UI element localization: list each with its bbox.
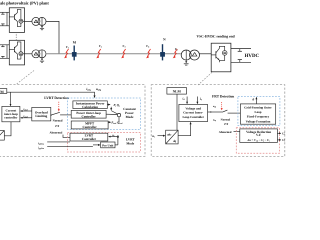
voltage and current inner-loop controller box — [179, 104, 208, 121]
svg-text:VSC-HVDC sending end: VSC-HVDC sending end — [197, 34, 235, 38]
svg-text:utq: utq — [213, 118, 217, 121]
svg-text:Overload: Overload — [35, 111, 48, 115]
svg-text:F5: F5 — [175, 48, 178, 51]
voltage reduction group (red dashed box) — [236, 128, 279, 153]
svg-text:Controller: Controller — [82, 125, 96, 128]
svg-text:Normal: Normal — [53, 119, 63, 123]
wire: PV2 converter to transformer T2 — [25, 53, 32, 55]
instantaneous power calculation box — [73, 101, 107, 109]
node u_t — [112, 134, 118, 138]
label u_sdq — [96, 88, 101, 92]
svg-text:Power: Power — [125, 111, 134, 115]
per unit box — [101, 142, 115, 148]
LVRT mode group (red dashed box) — [67, 133, 140, 153]
LVRT controller box — [70, 133, 108, 141]
output arrow U lower — [277, 139, 281, 141]
continuation dots between PV units — [15, 34, 18, 40]
svg-text:abc: abc — [167, 133, 172, 137]
wire power outer-loop to selector — [106, 113, 117, 115]
VSC-HVDC converter U1 (box with IGBT submodule) — [211, 43, 231, 72]
dq-abc transform box (left panel) — [0, 131, 4, 141]
label Abnormal — [50, 131, 63, 135]
svg-text:FRT Detection: FRT Detection — [212, 95, 234, 99]
svg-text:Controller: Controller — [82, 138, 96, 142]
svg-text:Grid-Forming Outer: Grid-Forming Outer — [244, 106, 272, 110]
svg-text:idref: idref — [23, 108, 27, 111]
svg-text:M: M — [73, 41, 77, 45]
DC line positive — [231, 48, 251, 50]
svg-text:FX: FX — [224, 123, 229, 126]
wire NLM to abc-dq — [176, 94, 178, 130]
arrow i_d into controller — [186, 97, 188, 104]
red dashed arrow from LVRT detection to switch — [58, 102, 60, 111]
label F3 — [123, 45, 126, 48]
svg-text:Large-scale photovoltaic (PV): Large-scale photovoltaic (PV) plant — [0, 0, 49, 5]
svg-text:iqref: iqref — [23, 115, 27, 118]
svg-text:PWM: PWM — [0, 90, 4, 94]
svg-text:dq: dq — [173, 139, 176, 143]
svg-text:Mode: Mode — [126, 142, 134, 146]
wire i_gd,lim — [47, 141, 70, 143]
wire abc-dq to controller — [178, 122, 191, 136]
DC capacitor lower — [238, 60, 242, 63]
PWM box — [0, 89, 7, 94]
svg-text:Voltage Formation: Voltage Formation — [246, 120, 271, 124]
label theta — [252, 98, 254, 102]
label u_td* — [213, 105, 217, 108]
svg-text:Per Unit: Per Unit — [102, 144, 114, 148]
fault marker F4 (red bolt) — [146, 49, 151, 58]
svg-text:Loop Controller: Loop Controller — [182, 115, 204, 119]
label u_tq* — [213, 118, 217, 121]
label F5 — [175, 48, 178, 51]
svg-text:F4: F4 — [146, 45, 149, 48]
svg-text:igd,lim: igd,lim — [38, 142, 44, 145]
callout dashed line to VSC control panel — [198, 72, 212, 85]
bus M (navy busbar) — [72, 46, 76, 61]
svg-text:Ut: Ut — [282, 139, 285, 142]
selector wire lower — [118, 117, 120, 122]
voltage reduction box — [240, 129, 278, 143]
svg-text:V-F: V-F — [256, 134, 261, 138]
arrow i_q into controller — [196, 97, 198, 104]
PV inverter unit 1 (converter box with IGBTs) — [0, 8, 25, 33]
wire controller to switch pole — [208, 111, 222, 112]
switch blade (mode selector) — [51, 112, 60, 115]
wire: measurement bus to power calculation — [7, 92, 95, 97]
wire u_t to LVRT controller — [109, 137, 118, 145]
svg-text:F1: F1 — [66, 46, 69, 49]
svg-text:Loop: Loop — [255, 111, 262, 115]
label N — [163, 38, 166, 42]
constant power mode group (blue dashed box) — [68, 98, 141, 129]
label U output lower — [282, 139, 285, 142]
abc-dq transform box (right panel) — [166, 130, 178, 144]
grid-forming outer loop box — [240, 104, 275, 124]
svg-text:Current: Current — [6, 109, 17, 113]
label HVDC — [245, 53, 259, 59]
label Constant Power Mode — [123, 108, 136, 119]
wire abnormal contact to voltage reduction — [234, 130, 240, 132]
transformer T3 (VSC interface, grounded + delta) — [181, 50, 199, 65]
label Ps Qs — [113, 104, 120, 107]
PV control panel (gray dashed box) — [0, 85, 145, 157]
fault marker F1 (red bolt) — [64, 49, 69, 58]
svg-text:NLM: NLM — [173, 89, 181, 93]
switch blade (right panel) — [222, 110, 227, 112]
power outer-loop controller box — [71, 110, 106, 118]
label M — [73, 41, 77, 45]
svg-text:Constant: Constant — [123, 108, 136, 112]
label i_gq,lim — [38, 147, 44, 150]
label i_sdq — [86, 87, 90, 91]
svg-text:usdq: usdq — [96, 88, 101, 92]
output arrow U upper — [277, 132, 281, 134]
svg-text:Ut: Ut — [282, 133, 285, 136]
svg-text:FX: FX — [55, 125, 60, 128]
label Normal (right) — [221, 118, 231, 122]
DC line negative — [231, 61, 251, 63]
bus N (navy busbar) — [160, 44, 164, 60]
wire normal contact to grid-forming loop — [228, 112, 241, 114]
svg-text:LVRT Detection: LVRT Detection — [44, 96, 69, 100]
label F2 — [99, 45, 102, 48]
svg-text:LVRT: LVRT — [126, 138, 135, 142]
arrow MPPT output — [108, 121, 111, 123]
svg-text:Abnormal: Abnormal — [50, 131, 63, 135]
label i_q — [200, 97, 202, 101]
svg-text:inner-loop: inner-loop — [4, 113, 18, 117]
svg-text:igq,lim: igq,lim — [38, 147, 44, 150]
wire switch normal contact to power outer-loop — [60, 114, 71, 116]
arrow power calc output — [107, 104, 110, 106]
wire: T1 to collector trunk — [46, 21, 59, 53]
svg-text:ut: ut — [112, 134, 115, 137]
NLM box — [167, 88, 187, 95]
wire i_qref (overload to current controller) — [21, 117, 32, 119]
svg-text:F3: F3 — [123, 45, 126, 48]
label i_d — [183, 97, 185, 101]
transmission line: bus M segment (PV collector to transformer T3) — [46, 53, 181, 55]
label LVRT Mode — [126, 138, 135, 146]
label VSC-HVDC sending end — [197, 34, 235, 38]
label Normal — [53, 119, 63, 123]
svg-text:Mode: Mode — [126, 115, 134, 119]
wire: PV1 converter to transformer T1 — [25, 20, 32, 22]
label i_dref — [23, 108, 27, 111]
wire i_gq,lim — [47, 146, 93, 148]
wire i_dref (overload to current controller) — [21, 110, 32, 112]
label F4 — [146, 45, 149, 48]
svg-text:Normal: Normal — [221, 118, 231, 122]
callout dashed line to PV control panel — [16, 71, 34, 85]
svg-text:N: N — [163, 38, 166, 42]
red dashed arrow FRT detection to switch — [221, 102, 223, 110]
DC capacitor upper — [238, 49, 242, 52]
MPPT controller box — [71, 121, 108, 129]
label Abnormal (right) — [219, 131, 232, 135]
svg-text:controller: controller — [4, 116, 17, 120]
fault marker F3 (red bolt) — [121, 49, 126, 58]
label u_t input — [152, 135, 155, 139]
VSC control panel (gray dashed box) — [151, 85, 285, 157]
grid-forming group (blue dashed box) — [238, 97, 280, 126]
svg-text:Ps Qs: Ps Qs — [113, 104, 120, 107]
svg-text:F2: F2 — [99, 45, 102, 48]
label U output upper — [282, 133, 285, 136]
overload limiting box — [32, 107, 51, 121]
svg-text:isdq: isdq — [86, 87, 90, 91]
svg-text:Limiting: Limiting — [35, 115, 47, 119]
switch pole node — [50, 115, 51, 116]
svg-text:Controller: Controller — [81, 115, 95, 119]
wire: current controller to PWM — [10, 92, 12, 106]
title: Large-scale photovoltaic (PV) plant — [0, 0, 49, 5]
label FX (right) — [224, 123, 229, 126]
svg-text:HVDC: HVDC — [245, 53, 259, 59]
label FRT Detection — [212, 95, 234, 99]
label F1 — [66, 46, 69, 49]
svg-text:utd: utd — [213, 105, 217, 108]
arrow u_t into abc-dq — [158, 135, 166, 137]
svg-text:Psref Qsref: Psref Qsref — [111, 122, 122, 125]
transformer T1 (PV unit 1, grounded) — [32, 17, 46, 29]
selector circle — [117, 113, 120, 116]
label Psref Qsref — [111, 122, 122, 125]
current inner-loop controller box — [2, 106, 20, 121]
svg-text:LVRT: LVRT — [85, 134, 94, 138]
theta output arrow — [255, 97, 257, 104]
wire switch abnormal contact to LVRT controller — [63, 135, 70, 138]
PV inverter unit 2 (converter box with IGBTs) — [0, 40, 25, 65]
fault marker F2 (red bolt) — [96, 49, 101, 58]
label FX — [55, 125, 60, 128]
wire dq-abc to current controller — [4, 122, 11, 136]
fault marker F5 (red bolt) — [173, 49, 178, 58]
svg-text:Fixed-Frequency: Fixed-Frequency — [247, 115, 270, 119]
svg-text:ut: ut — [152, 135, 155, 139]
label LVRT Detection — [44, 96, 69, 100]
svg-text:Calculation: Calculation — [82, 105, 98, 109]
arrow into per unit — [93, 144, 100, 146]
selector wire upper — [111, 107, 117, 114]
svg-text:Abnormal: Abnormal — [219, 131, 232, 135]
wire: T3 to VSC converter — [199, 53, 211, 55]
label i_qref — [23, 115, 27, 118]
svg-text:Current Inner-: Current Inner- — [183, 111, 203, 115]
svg-text:Δu = Vref − Uj − Ut: Δu = Vref − Uj − Ut — [247, 139, 270, 142]
transformer T2 (PV unit 2, grounded) — [32, 50, 46, 62]
label i_gd,lim — [38, 142, 44, 145]
svg-text:Voltage and: Voltage and — [185, 107, 201, 111]
